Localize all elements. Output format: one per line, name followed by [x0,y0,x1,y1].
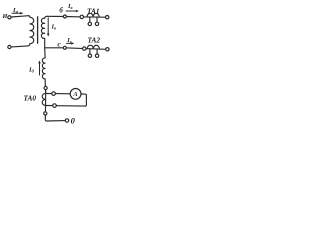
terminal lower left [8,45,11,48]
svg-text:I0: I0 [28,67,35,74]
TA2 secondary terminal right [95,54,98,57]
arrowhead Iн [20,12,23,15]
TA0 secondary terminal bottom [53,104,57,108]
wire top-left feed from terminal И [11,16,28,17]
TA2 secondary bumps [87,45,99,49]
TA2 left circle [83,47,86,50]
wire ammeter bottom to TA0 stub [46,105,53,107]
TA1 left circle [80,15,83,18]
TA0 secondary bumps (bulge left) [42,93,45,105]
svg-text:Iв: Iв [67,3,73,10]
TA0 top circle [44,86,47,89]
svg-text:Iв: Iв [51,24,57,31]
TA1 right terminal [106,16,109,19]
svg-text:Iс: Iс [66,37,72,44]
TA0 stub top to ammeter [46,93,52,95]
arrow I0 (up) [39,64,41,76]
svg-text:И: И [2,13,8,20]
TA1 secondary stub left [89,17,91,22]
TA1 secondary terminal left [88,22,91,25]
TA2 secondary terminal left [88,54,91,57]
terminal 0 [65,119,68,122]
TA1 secondary terminal right [95,22,98,25]
svg-text:ТА2: ТА2 [88,36,101,45]
transformer core [37,17,39,43]
winding T secondary upper (bumps left) [41,16,47,48]
wire ammeter right loop [56,94,86,106]
wire vertical through TA0 [45,90,65,121]
arrow Iв winding (down) [47,18,49,34]
wire vertical branch upper [44,48,46,58]
arrow Iн [12,12,21,14]
arrowhead Iв down [47,34,50,37]
TA2 secondary stub right [96,49,98,54]
wire middle bus [45,48,106,50]
terminal И [8,16,11,19]
winding on vertical branch (bumps left) [42,58,45,79]
arrowhead Iв top [76,10,79,13]
TA2 right terminal [106,48,109,51]
bottom node circle [44,112,47,115]
svg-text:б: б [59,8,63,15]
svg-text:0: 0 [71,115,76,125]
winding T primary (left, bumps right) [28,16,34,46]
TA2 secondary stub left [89,49,91,54]
wire top bus [47,15,105,18]
arrowhead Ic [71,42,74,45]
ammeter A circle [70,89,81,100]
svg-text:Iн: Iн [12,7,19,14]
node в circle [63,15,66,18]
arrow Iв top [66,10,76,12]
svg-text:А: А [72,91,77,98]
arrow Ic [66,42,72,44]
TA1 secondary bumps [87,13,99,17]
arrowhead I0 up [38,60,41,63]
node c circle [63,46,66,49]
svg-text:ТА0: ТА0 [24,94,37,103]
svg-text:ТА1: ТА1 [87,6,100,15]
wire TA0 top stub to ammeter [56,93,71,95]
wire bottom-left feed [11,46,28,47]
TA0 secondary terminal top [52,92,56,96]
wire vertical branch to TA0 [44,79,47,94]
TA1 secondary stub right [96,17,98,22]
